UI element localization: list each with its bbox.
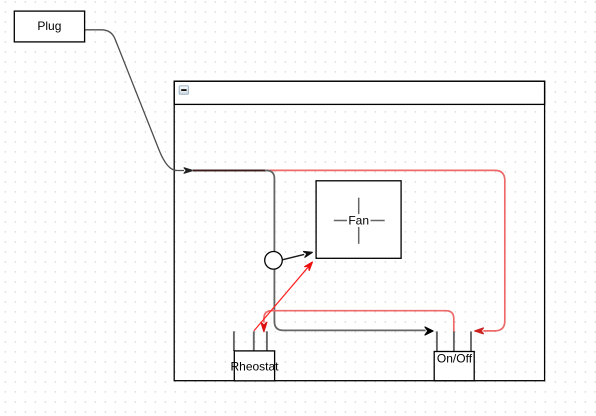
svg-text:Plug: Plug — [37, 19, 61, 33]
svg-text:Rheostat: Rheostat — [230, 359, 279, 373]
svg-text:Fan: Fan — [348, 214, 369, 228]
svg-text:On/Off: On/Off — [437, 351, 473, 365]
